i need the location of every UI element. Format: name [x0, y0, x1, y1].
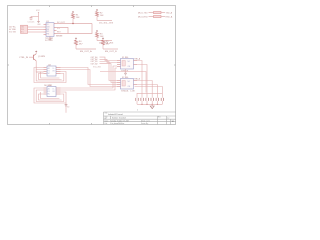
- junction dots cap rail: [141, 104, 158, 105]
- svg-text:VCC_ISO: VCC_ISO: [93, 67, 101, 69]
- svg-text:Drawn By:: Drawn By:: [141, 123, 149, 125]
- svg-text:G5NB-1A: G5NB-1A: [121, 69, 129, 72]
- power flag VCC top-left: [36, 10, 40, 22]
- wire R2 to SCL: [97, 20, 112, 22]
- svg-text:OUT_B2: OUT_B2: [91, 63, 98, 65]
- wire VCC distribution pink: [100, 72, 146, 93]
- svg-text:Q1 NPN: Q1 NPN: [38, 56, 46, 58]
- relay K1: [117, 57, 141, 72]
- wire R4 out: [76, 48, 96, 50]
- sheet border frame: [8, 6, 176, 125]
- connector J1 net labels: [9, 26, 17, 33]
- capacitor C6: [156, 98, 159, 101]
- svg-text:10K: 10K: [100, 15, 104, 17]
- wire U2 out to bus b: [61, 70, 118, 87]
- wire K1 out fanout b: [137, 65, 147, 94]
- svg-text:REL-B: REL-B: [135, 78, 141, 80]
- resistor R6 series: [154, 11, 162, 13]
- svg-text:Isolated IO board: Isolated IO board: [108, 113, 123, 116]
- connector J1: [21, 25, 28, 33]
- wire bus label a: [100, 57, 118, 60]
- wire J1 to U1 pin3: [28, 31, 44, 33]
- transistor Q1: [34, 51, 46, 67]
- resistor R4 pull-up: [75, 37, 84, 49]
- wire row2 left: [149, 16, 154, 18]
- wire fanout c: [135, 87, 163, 94]
- wire U1 out to R1 node: [57, 23, 93, 25]
- wire U3 out to K2 a: [61, 66, 118, 88]
- resistor R7 series: [154, 15, 162, 17]
- resistor R5 pull-up: [102, 37, 111, 49]
- wire loop U2 d: [41, 72, 60, 79]
- capacitor C2: [136, 98, 138, 101]
- wire bus label c: [100, 62, 118, 81]
- wire row1 left: [149, 12, 154, 14]
- svg-text:1.2: 1.2: [167, 118, 169, 120]
- wire R5 out: [103, 48, 118, 50]
- svg-text:1/1: 1/1: [172, 121, 175, 123]
- wire row y33.5: [57, 24, 93, 34]
- capacitor C4: [146, 98, 149, 101]
- isolator U3: [44, 85, 61, 96]
- isolator U2: [44, 65, 61, 76]
- wire loop U2 c: [38, 74, 61, 80]
- wire loop U3 c: [38, 94, 61, 100]
- cap bottom stubs: [137, 101, 162, 104]
- svg-text:A1: A1: [48, 88, 50, 91]
- svg-text:4: 4: [137, 110, 138, 112]
- relay K2: [117, 77, 141, 92]
- wire cap ground rail: [137, 103, 162, 105]
- wire loop U2 b: [36, 70, 64, 82]
- capacitor C5: [151, 98, 153, 101]
- wire bus label b: [100, 59, 118, 62]
- wire loop U3 a: [34, 88, 66, 103]
- svg-text:10K: 10K: [76, 17, 80, 19]
- svg-text:MCU_RX0: MCU_RX0: [138, 16, 148, 18]
- ground flag below K1: [124, 69, 127, 76]
- capacitor C1: [30, 17, 33, 21]
- wire cap top rail: [137, 93, 162, 98]
- wire J1 to U1 pin2: [28, 29, 44, 31]
- wire U3 out to K2 b: [61, 68, 118, 90]
- op-amp U1 main IC: [44, 21, 57, 42]
- wire K2 out fanout b: [137, 85, 157, 94]
- wire K1 out fanout a: [137, 61, 142, 94]
- svg-text:SENSE: SENSE: [56, 35, 63, 37]
- wire loop U2 a: [34, 68, 66, 83]
- ground flag below U3: [65, 103, 71, 113]
- wire U2 out to bus a: [61, 68, 118, 85]
- svg-text:I2C_SCL_3V3: I2C_SCL_3V3: [99, 23, 114, 25]
- svg-text:C:\io_board.SchDoc: C:\io_board.SchDoc: [110, 123, 124, 125]
- svg-text:CTRL_IN: CTRL_IN: [19, 57, 29, 59]
- wire R3 to SDA: [97, 40, 112, 42]
- wire branch to C1: [31, 16, 39, 18]
- wire row2 right: [161, 16, 165, 18]
- svg-text:EN_OUT_A: EN_OUT_A: [80, 50, 92, 53]
- resistor R1 pull-up: [72, 11, 81, 24]
- svg-text:Number: IO-102-B: Number: IO-102-B: [112, 117, 127, 120]
- net labels bus left: [91, 56, 98, 66]
- cap top stubs: [142, 93, 162, 98]
- capacitor C7: [161, 98, 163, 101]
- svg-text:IO1 SIG: IO1 SIG: [9, 31, 16, 33]
- svg-text:TXD_A: TXD_A: [166, 11, 173, 14]
- wire row1 right: [161, 12, 165, 14]
- svg-text:REL-A: REL-A: [135, 57, 141, 60]
- title block: [104, 112, 177, 125]
- svg-text:SOT23-6: SOT23-6: [45, 40, 53, 42]
- wire loop U3 d: [41, 92, 60, 99]
- resistor R3 pull-up: [96, 30, 105, 41]
- capacitor C3: [141, 98, 143, 101]
- ground symbol cap bank: [150, 104, 154, 108]
- wire K2 out fanout a: [137, 81, 152, 94]
- wire bus label d: [100, 64, 118, 83]
- svg-text:EN_OUT_B: EN_OUT_B: [105, 51, 117, 53]
- wire loop U3 b: [36, 90, 64, 102]
- svg-text:C1 100n: C1 100n: [28, 21, 35, 23]
- wire J1 to U1 pin1: [28, 26, 44, 28]
- resistor R2 pull-up: [96, 9, 105, 21]
- svg-text:MCU_TX0: MCU_TX0: [138, 12, 148, 14]
- svg-text:G5NB-1A: G5NB-1A: [121, 89, 129, 92]
- svg-text:A1: A1: [48, 67, 50, 70]
- svg-text:10K: 10K: [100, 36, 104, 38]
- wire U1 mid: [57, 28, 69, 34]
- svg-text:RXD_A: RXD_A: [166, 15, 173, 18]
- wire to Q1 base: [29, 56, 33, 58]
- svg-text:C_BK: C_BK: [130, 91, 136, 93]
- ground below node: [37, 22, 40, 23]
- svg-text:Rev: Rev: [158, 117, 161, 119]
- wire Q1 emitter down to U2: [36, 66, 43, 72]
